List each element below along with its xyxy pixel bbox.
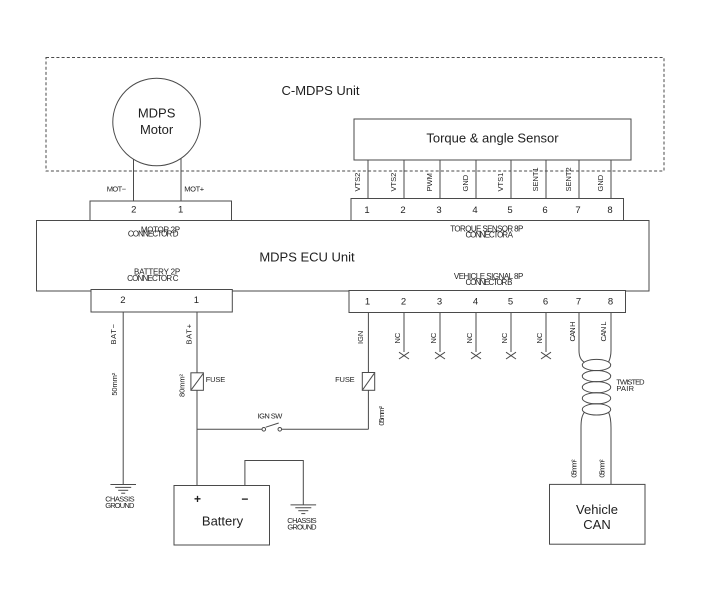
svg-text:GROUND: GROUND: [105, 501, 135, 510]
svg-text:PWM: PWM: [425, 173, 434, 191]
svg-text:4: 4: [472, 205, 477, 216]
svg-text:FUSE: FUSE: [335, 375, 355, 384]
svg-text:1: 1: [178, 205, 183, 216]
svg-text:CAN: CAN: [583, 517, 610, 532]
svg-text:1: 1: [364, 205, 369, 216]
svg-text:CONNECTOR A: CONNECTOR A: [465, 230, 513, 239]
svg-text:VTS2: VTS2: [353, 173, 362, 192]
svg-text:NC: NC: [500, 332, 509, 343]
svg-text:4: 4: [473, 297, 478, 308]
svg-text:GND: GND: [596, 174, 605, 191]
svg-text:7: 7: [575, 205, 580, 216]
svg-text:8: 8: [607, 205, 612, 216]
svg-text:2: 2: [131, 205, 136, 216]
svg-text:MDPS: MDPS: [138, 105, 176, 120]
svg-text:3: 3: [437, 297, 442, 308]
svg-text:BAT−: BAT−: [109, 323, 118, 344]
svg-text:CAN L: CAN L: [599, 322, 608, 342]
svg-text:7: 7: [576, 297, 581, 308]
svg-text:NC: NC: [465, 332, 474, 343]
svg-text:GROUND: GROUND: [287, 522, 317, 531]
svg-text:MOT−: MOT−: [107, 184, 127, 193]
svg-text:SENT1: SENT1: [531, 167, 540, 191]
svg-text:8: 8: [608, 297, 613, 308]
svg-text:PAIR: PAIR: [616, 384, 634, 393]
svg-text:80mm²: 80mm²: [178, 374, 187, 398]
svg-text:CONNECTOR C: CONNECTOR C: [127, 274, 179, 283]
svg-text:VTS2: VTS2: [389, 173, 398, 192]
svg-text:5: 5: [508, 297, 513, 308]
svg-text:CAN H: CAN H: [568, 322, 577, 342]
svg-text:2: 2: [401, 297, 406, 308]
svg-text:IGN SW: IGN SW: [258, 412, 284, 421]
svg-text:Vehicle: Vehicle: [576, 502, 618, 517]
svg-text:2: 2: [120, 295, 125, 306]
svg-text:MOT+: MOT+: [184, 184, 205, 193]
svg-text:SENT2: SENT2: [564, 167, 573, 191]
svg-text:05mm²: 05mm²: [570, 459, 579, 478]
svg-text:GND: GND: [461, 174, 470, 191]
svg-text:MDPS ECU Unit: MDPS ECU Unit: [259, 249, 355, 264]
svg-text:C-MDPS Unit: C-MDPS Unit: [281, 83, 359, 98]
svg-text:3: 3: [436, 205, 441, 216]
svg-text:Torque & angle Sensor: Torque & angle Sensor: [426, 131, 559, 146]
svg-text:FUSE: FUSE: [206, 375, 226, 384]
svg-text:IGN: IGN: [356, 331, 365, 344]
svg-text:05mm²: 05mm²: [598, 459, 607, 478]
svg-text:NC: NC: [535, 332, 544, 343]
svg-text:05mm²: 05mm²: [377, 406, 386, 426]
svg-text:BAT+: BAT+: [184, 323, 193, 344]
svg-text:1: 1: [194, 295, 199, 306]
svg-text:6: 6: [543, 297, 548, 308]
svg-text:CONNECTOR B: CONNECTOR B: [466, 278, 513, 287]
svg-text:5: 5: [507, 205, 512, 216]
svg-text:2: 2: [400, 205, 405, 216]
svg-text:VTS1: VTS1: [496, 173, 505, 192]
svg-text:50mm²: 50mm²: [110, 372, 119, 395]
svg-text:Battery: Battery: [202, 513, 244, 528]
svg-text:6: 6: [542, 205, 547, 216]
svg-text:Motor: Motor: [140, 122, 174, 137]
svg-text:CONNECTOR D: CONNECTOR D: [128, 230, 179, 239]
svg-text:+: +: [194, 492, 201, 506]
svg-text:1: 1: [365, 297, 370, 308]
svg-text:NC: NC: [393, 332, 402, 343]
svg-text:NC: NC: [429, 332, 438, 343]
svg-text:−: −: [241, 492, 248, 506]
